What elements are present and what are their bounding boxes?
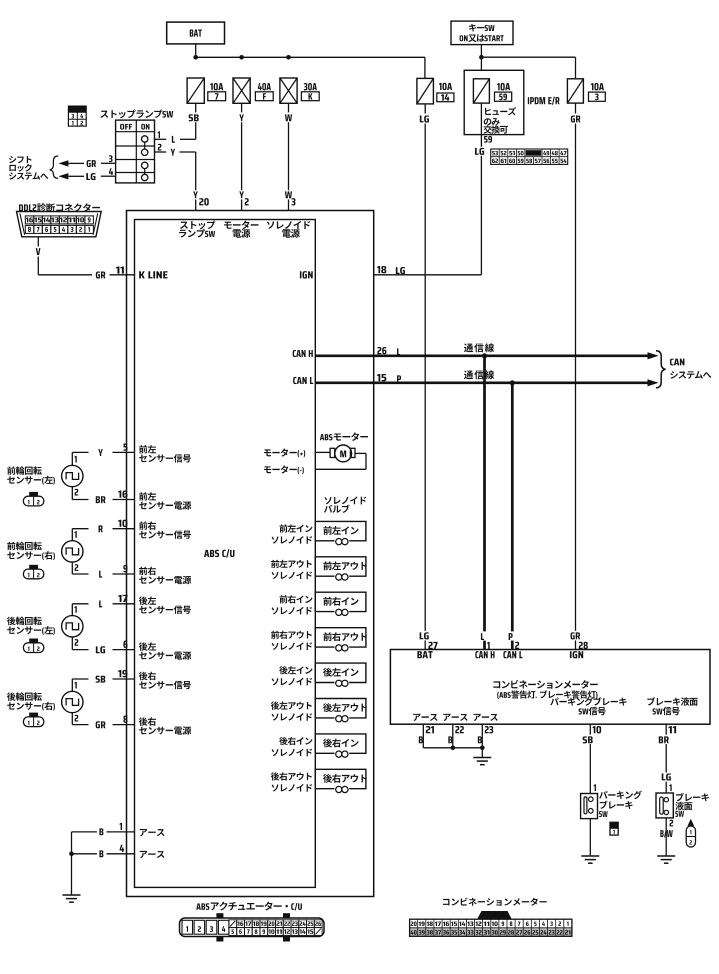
- connector icon stop lamp SW: [68, 106, 86, 112]
- pin 28 IGN: [579, 642, 588, 649]
- solenoid 前右インソレノイド: [315, 592, 366, 611]
- box ABS actuator outer: [127, 211, 374, 897]
- pin 17 後輪回転 sensor signal: [118, 595, 127, 602]
- wire fuse 7 to stop lamp SW pin 1, color SB: [195, 103, 197, 139]
- label IGN: [300, 271, 313, 278]
- wire ABS pin1 ground, color B: [72, 831, 135, 833]
- solenoid 前左アウトソレノイド: [315, 557, 366, 576]
- fuse 10A 3: [567, 79, 583, 103]
- wire fluid SW to ground: [665, 818, 667, 856]
- solenoid 後左インソレノイド: [315, 663, 366, 682]
- wire 後輪回転 pin1 signal, color L: [71, 604, 73, 616]
- wire DDL2 pin7 to K LINE, color V then GR: [37, 237, 39, 275]
- wire meter pin22 ground B: [452, 724, 454, 748]
- solenoid 後右インソレノイド: [315, 734, 366, 753]
- pin 11 K LINE: [116, 266, 124, 273]
- pin 5 前輪回転 sensor signal: [124, 443, 128, 450]
- switch parking brake SW: [581, 794, 598, 819]
- label ABSアクチュエーター・C/U: [196, 902, 302, 911]
- wire 前輪回転 pin2 power, color L: [71, 562, 73, 574]
- wire CAN L to meter pin2 heavy: [511, 383, 514, 650]
- wire fuse 3 to meter IGN, color GR: [575, 103, 577, 649]
- wire fuse 14 to meter BAT, color LG: [424, 104, 426, 650]
- sensor 後輪回転センサー(左): [7, 617, 42, 626]
- wire BAT to bus: [195, 44, 197, 57]
- wire motor minus: [315, 468, 366, 470]
- wire 後輪回転 pin1 signal, color SB: [71, 679, 73, 691]
- wire meter pin21 ground B: [422, 724, 424, 748]
- sensor 前輪回転センサー(左): [7, 466, 42, 474]
- connector icon 後輪回転: [23, 717, 43, 727]
- label コンビネーションメーター connector: [443, 898, 547, 906]
- pin 2 stub stop lamp SW: [155, 151, 167, 153]
- switch ストップランプSW: [100, 109, 173, 118]
- wire meter pin11 to brake fluid SW, color BR: [665, 724, 667, 793]
- wire motor plus: [315, 451, 330, 453]
- wire key SW down: [480, 45, 482, 71]
- pin 1 stub stop lamp SW: [155, 138, 167, 140]
- fuse 10A 14: [417, 78, 434, 104]
- pin 6 後輪回転 sensor power: [123, 641, 127, 648]
- connector icon parking brake SW: [610, 822, 618, 829]
- junction dot key SW bus: [479, 55, 484, 60]
- wire fuse F to pin 2, color Y: [241, 103, 243, 210]
- box ABS C/U inner: [135, 220, 316, 888]
- connector icon 後輪回転: [23, 643, 43, 653]
- power source BAT box: [167, 22, 225, 44]
- pin 2 モーター電源: [245, 198, 249, 205]
- connector DDL2診断コネクター: [19, 203, 100, 212]
- label シフトロックシステムへ: [9, 156, 32, 163]
- junction dot bus at fuse 7: [193, 55, 198, 60]
- wire stop lamp SW pin2 to ABS pin 20, color Y: [171, 149, 176, 156]
- IPDM grid blank cell: [526, 150, 542, 156]
- fusible link 40A F: [233, 78, 250, 103]
- wire battery bus: [196, 56, 425, 58]
- ground symbol meter: [473, 757, 491, 759]
- wire labels above meter: [479, 631, 488, 640]
- wire fuse 59 to ABS IGN pin, color LG: [480, 103, 482, 275]
- wire 前輪回転 pin1 signal, color Y: [71, 452, 73, 465]
- solenoid 前右アウトソレノイド: [315, 628, 366, 647]
- solenoid 後右アウトソレノイド: [315, 769, 366, 788]
- pin 8 後輪回転 sensor power: [123, 716, 127, 723]
- label 通信線 CAN H: [464, 343, 494, 352]
- pin 16 前輪回転 sensor power: [118, 490, 127, 497]
- wire CAN L heavy: [315, 381, 648, 384]
- junction dot CAN L: [510, 380, 515, 385]
- pin 3 ソレノイド電源: [292, 198, 296, 205]
- wire LG to shift lock system: [58, 173, 68, 179]
- sensor 前輪回転センサー(右): [7, 542, 42, 550]
- label K LINE: [139, 271, 167, 278]
- wire meter pin23 ground B: [481, 724, 483, 748]
- label CANシステムへ: [670, 359, 685, 366]
- motor ABS モーター: [320, 432, 368, 440]
- label 通信線 CAN L: [464, 370, 494, 379]
- meter title: [493, 680, 597, 689]
- connector IPDM pin grid: [491, 149, 568, 164]
- connector icon brake fluid SW: [688, 819, 695, 826]
- IPDM E/R box: [464, 70, 524, 134]
- junction dot bus at fuse F: [239, 55, 244, 60]
- brace CAN system: [656, 351, 666, 388]
- connector tabs: [216, 913, 223, 918]
- wire color L label: [172, 136, 175, 143]
- pin 20 label: [180, 220, 215, 229]
- solenoid 前左インソレノイド: [315, 521, 366, 540]
- connector combination meter 40pin: [410, 928, 572, 937]
- wire ground drop: [71, 832, 73, 895]
- switch contact circles: [142, 136, 148, 142]
- meter pin labels top: [417, 651, 432, 658]
- junction dot ground: [69, 852, 74, 857]
- pin 18 LG: [377, 266, 386, 273]
- pin 10 前輪回転 sensor signal: [118, 520, 127, 527]
- wire fuse K to pin 3, color W: [288, 103, 290, 210]
- meter pin labels bottom: [413, 714, 437, 721]
- connector key tab: [477, 911, 512, 919]
- pin 20 ストップランプSW: [199, 198, 209, 205]
- junction dot CAN H: [482, 353, 487, 358]
- solenoid 後左アウトソレノイド: [315, 699, 366, 718]
- fusible link 30A K: [280, 78, 297, 103]
- connector icon 前輪回転: [23, 496, 43, 506]
- label ソレノイドバルブ: [324, 497, 366, 505]
- label IPDM E/R: [528, 97, 560, 105]
- wire 後輪回転 pin2 power, color GR: [71, 713, 73, 725]
- brace shift lock: [50, 156, 59, 178]
- wire ground bus meter: [423, 747, 482, 749]
- junction dot bus at fuse K: [286, 55, 291, 60]
- label CAN L: [293, 377, 313, 384]
- switch キーSW box: [451, 21, 513, 44]
- label ヒューズのみ交換可: [485, 107, 516, 115]
- wire ABS pin4 ground, color B: [72, 853, 135, 855]
- fuse 10A 59: [473, 79, 489, 103]
- ground symbol ABS: [63, 894, 81, 896]
- pin 3 label: [267, 221, 310, 229]
- pin 15 P: [377, 374, 386, 381]
- pin 27 BAT: [428, 642, 437, 649]
- pin 26 L: [377, 347, 386, 354]
- label CAN H: [293, 350, 313, 357]
- pin 3 stub to shift lock: [101, 162, 116, 164]
- wire key bus to fuse 3: [481, 56, 575, 58]
- pin 4 stub to shift lock: [101, 175, 116, 177]
- pin 2 label: [224, 221, 258, 229]
- switch brake fluid SW: [656, 793, 673, 818]
- sensor 後輪回転センサー(右): [7, 692, 42, 701]
- label ABS C/U: [204, 549, 234, 557]
- pin 19 後輪回転 sensor signal: [118, 670, 127, 677]
- ground symbol fluid: [657, 855, 675, 857]
- ground symbol parking: [581, 855, 599, 857]
- wire 前輪回転 pin2 power, color BR: [71, 487, 73, 500]
- fuse 10A 7: [187, 78, 204, 103]
- connector ABS actuator: [180, 918, 325, 937]
- connector icon 前輪回転: [23, 569, 43, 579]
- meter box コンビネーションメーター: [390, 650, 710, 725]
- wire 後輪回転 pin2 power, color LG: [71, 637, 73, 650]
- wire meter pin10 to parking brake SW, color SB: [589, 724, 591, 793]
- wire CAN H to meter pin1 heavy: [483, 356, 486, 650]
- wire GR to shift lock system: [58, 160, 68, 166]
- pin 9 前輪回転 sensor power: [123, 565, 127, 572]
- wire CAN H heavy: [315, 354, 648, 357]
- pin 2 B/W: [670, 820, 674, 827]
- wire parking SW to ground: [589, 819, 591, 856]
- wire 前輪回転 pin1 signal, color R: [71, 529, 73, 541]
